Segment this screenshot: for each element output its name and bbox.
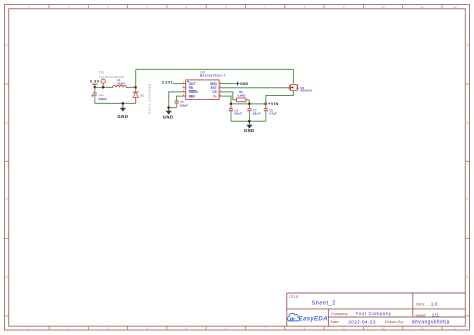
frame zone ticks right: [465, 84, 469, 316]
EasyEDA logo cloud: [288, 313, 300, 321]
U3 pin EXT: [219, 87, 222, 89]
wire Q1 drain down and left: [266, 91, 294, 104]
svg-text:C: C: [466, 197, 469, 201]
ground symbol under C5: [163, 108, 174, 120]
svg-text:+VIN: +VIN: [268, 101, 279, 106]
svg-text:devangvkhetia: devangvkhetia: [412, 320, 450, 326]
net flag 3.3V: [90, 79, 100, 87]
wire REF down to C5: [177, 96, 183, 101]
svg-text:12: 12: [453, 5, 457, 9]
svg-text:A: A: [466, 44, 469, 48]
node junction diode top: [135, 86, 137, 88]
svg-text:Date:: Date:: [331, 320, 340, 324]
svg-text:4.7uF: 4.7uF: [269, 112, 277, 116]
svg-text:11: 11: [421, 327, 424, 331]
svg-text:0.04Ω: 0.04Ω: [238, 93, 247, 97]
wire inductor to node: [126, 86, 135, 88]
wire GND pin to flag: [222, 83, 237, 85]
svg-text:GND: GND: [240, 82, 249, 86]
ground symbol right: [244, 121, 255, 133]
svg-text:TP1: TP1: [99, 71, 105, 75]
svg-text:68uF: 68uF: [253, 112, 261, 116]
wire node up: [135, 69, 137, 87]
svg-text:3.3V3: 3.3V3: [162, 81, 173, 85]
svg-text:68uF: 68uF: [234, 112, 242, 116]
svg-text:1.0: 1.0: [431, 302, 438, 307]
capacitor C7: [247, 104, 261, 121]
node junction rail C8: [265, 103, 267, 105]
title block outline: [287, 293, 466, 326]
svg-text:1/1: 1/1: [432, 313, 439, 318]
capacitor C5: [175, 100, 189, 108]
wire R6 down to rail: [248, 100, 250, 104]
frame zone letters right: [466, 44, 469, 280]
inductor L1: [111, 78, 127, 87]
svg-text:Sheet_2: Sheet_2: [312, 300, 336, 306]
node junction at TP1: [102, 86, 104, 88]
U3 pin REF: [183, 95, 186, 97]
svg-text:D: D: [5, 275, 8, 279]
wire SHDN to gnd node: [169, 92, 183, 108]
svg-text:10: 10: [381, 5, 385, 9]
svg-text:REV:: REV:: [416, 302, 425, 306]
svg-text:11: 11: [421, 5, 424, 9]
frame zone ticks left: [5, 84, 9, 316]
op-amp U3 body: [186, 71, 226, 100]
wire V+ down to rail: [222, 96, 231, 104]
capacitor C6: [229, 104, 243, 121]
svg-text:B: B: [466, 121, 468, 125]
svg-text:TITLE:: TITLE:: [289, 295, 300, 299]
svg-text:10: 10: [381, 327, 385, 331]
U3 pin GND: [219, 83, 222, 85]
U3 pin V+: [219, 95, 222, 97]
svg-text:V+: V+: [213, 94, 217, 98]
svg-text:EasyEDA: EasyEDA: [299, 316, 328, 323]
frame zone ticks top: [49, 5, 442, 9]
wire C5 bottom to gnd node: [169, 107, 177, 109]
wire top rail to Q1: [136, 68, 294, 70]
svg-text:GND: GND: [163, 115, 174, 120]
frame zone ticks bottom: [49, 326, 442, 330]
ground symbol left: [117, 103, 128, 119]
svg-text:C: C: [5, 197, 8, 201]
wire EXT to Q1 gate: [222, 87, 290, 89]
svg-text:A: A: [6, 44, 9, 48]
net flag GND at U3: [237, 82, 248, 86]
svg-text:REF: REF: [189, 94, 195, 98]
U3 pin OUT: [183, 83, 186, 85]
svg-text:D5: D5: [140, 94, 144, 98]
node junction C5 gnd: [168, 106, 170, 108]
svg-text:D: D: [466, 275, 469, 279]
svg-text:MAX1627ESA+T: MAX1627ESA+T: [200, 74, 226, 78]
svg-text:220uF: 220uF: [99, 97, 108, 101]
wire bottom rail left: [95, 102, 136, 104]
wire 3.3V to inductor: [95, 86, 112, 88]
svg-text:Your Company: Your Company: [356, 311, 392, 316]
svg-text:100nF: 100nF: [180, 103, 189, 107]
resistor R6: [233, 90, 250, 102]
svg-text:AO3401A: AO3401A: [300, 89, 312, 93]
node junction rail C6: [230, 103, 232, 105]
U3 pin SHDN: [183, 91, 186, 93]
svg-text:12: 12: [453, 327, 457, 331]
frame zone numbers top: [28, 5, 457, 9]
capacitor C1: [91, 87, 107, 103]
frame zone numbers bottom: [28, 327, 457, 331]
frame zone letters left: [5, 44, 8, 280]
svg-text:Drawn By:: Drawn By:: [385, 320, 404, 324]
svg-text:22uH: 22uH: [117, 82, 124, 86]
svg-text:3.3V: 3.3V: [90, 79, 100, 83]
svg-text:GND: GND: [117, 114, 128, 119]
wire +VIN rail: [231, 103, 267, 105]
test point TP1: [99, 71, 125, 88]
capacitor C8: [264, 104, 277, 121]
wire 3.3V3 to OUT pin: [173, 83, 182, 85]
transistor Q1: [289, 84, 312, 93]
svg-text:GND: GND: [244, 128, 255, 133]
wire Q1 source down: [292, 69, 294, 83]
svg-text:B: B: [6, 121, 8, 125]
node junction bottom rail left: [122, 102, 124, 104]
node junction bottom rail right: [248, 120, 250, 122]
U3 pin FB: [183, 87, 186, 89]
svg-text:TestPointSmall: TestPointSmall: [99, 75, 125, 79]
wire CS to R6: [222, 92, 233, 100]
svg-text:Company:: Company:: [331, 312, 348, 316]
node junction at 3.3V tap: [94, 86, 96, 88]
node junction rail C7: [248, 103, 250, 105]
svg-text:Sheet:: Sheet:: [415, 314, 426, 318]
wire bottom rail right: [231, 120, 266, 122]
diode D5: [133, 87, 144, 103]
svg-text:2022-04-23: 2022-04-23: [348, 319, 376, 324]
U3 pin CS: [219, 91, 222, 93]
svg-text:SS34_CA0605B: SS34_CA0605B: [147, 83, 151, 114]
